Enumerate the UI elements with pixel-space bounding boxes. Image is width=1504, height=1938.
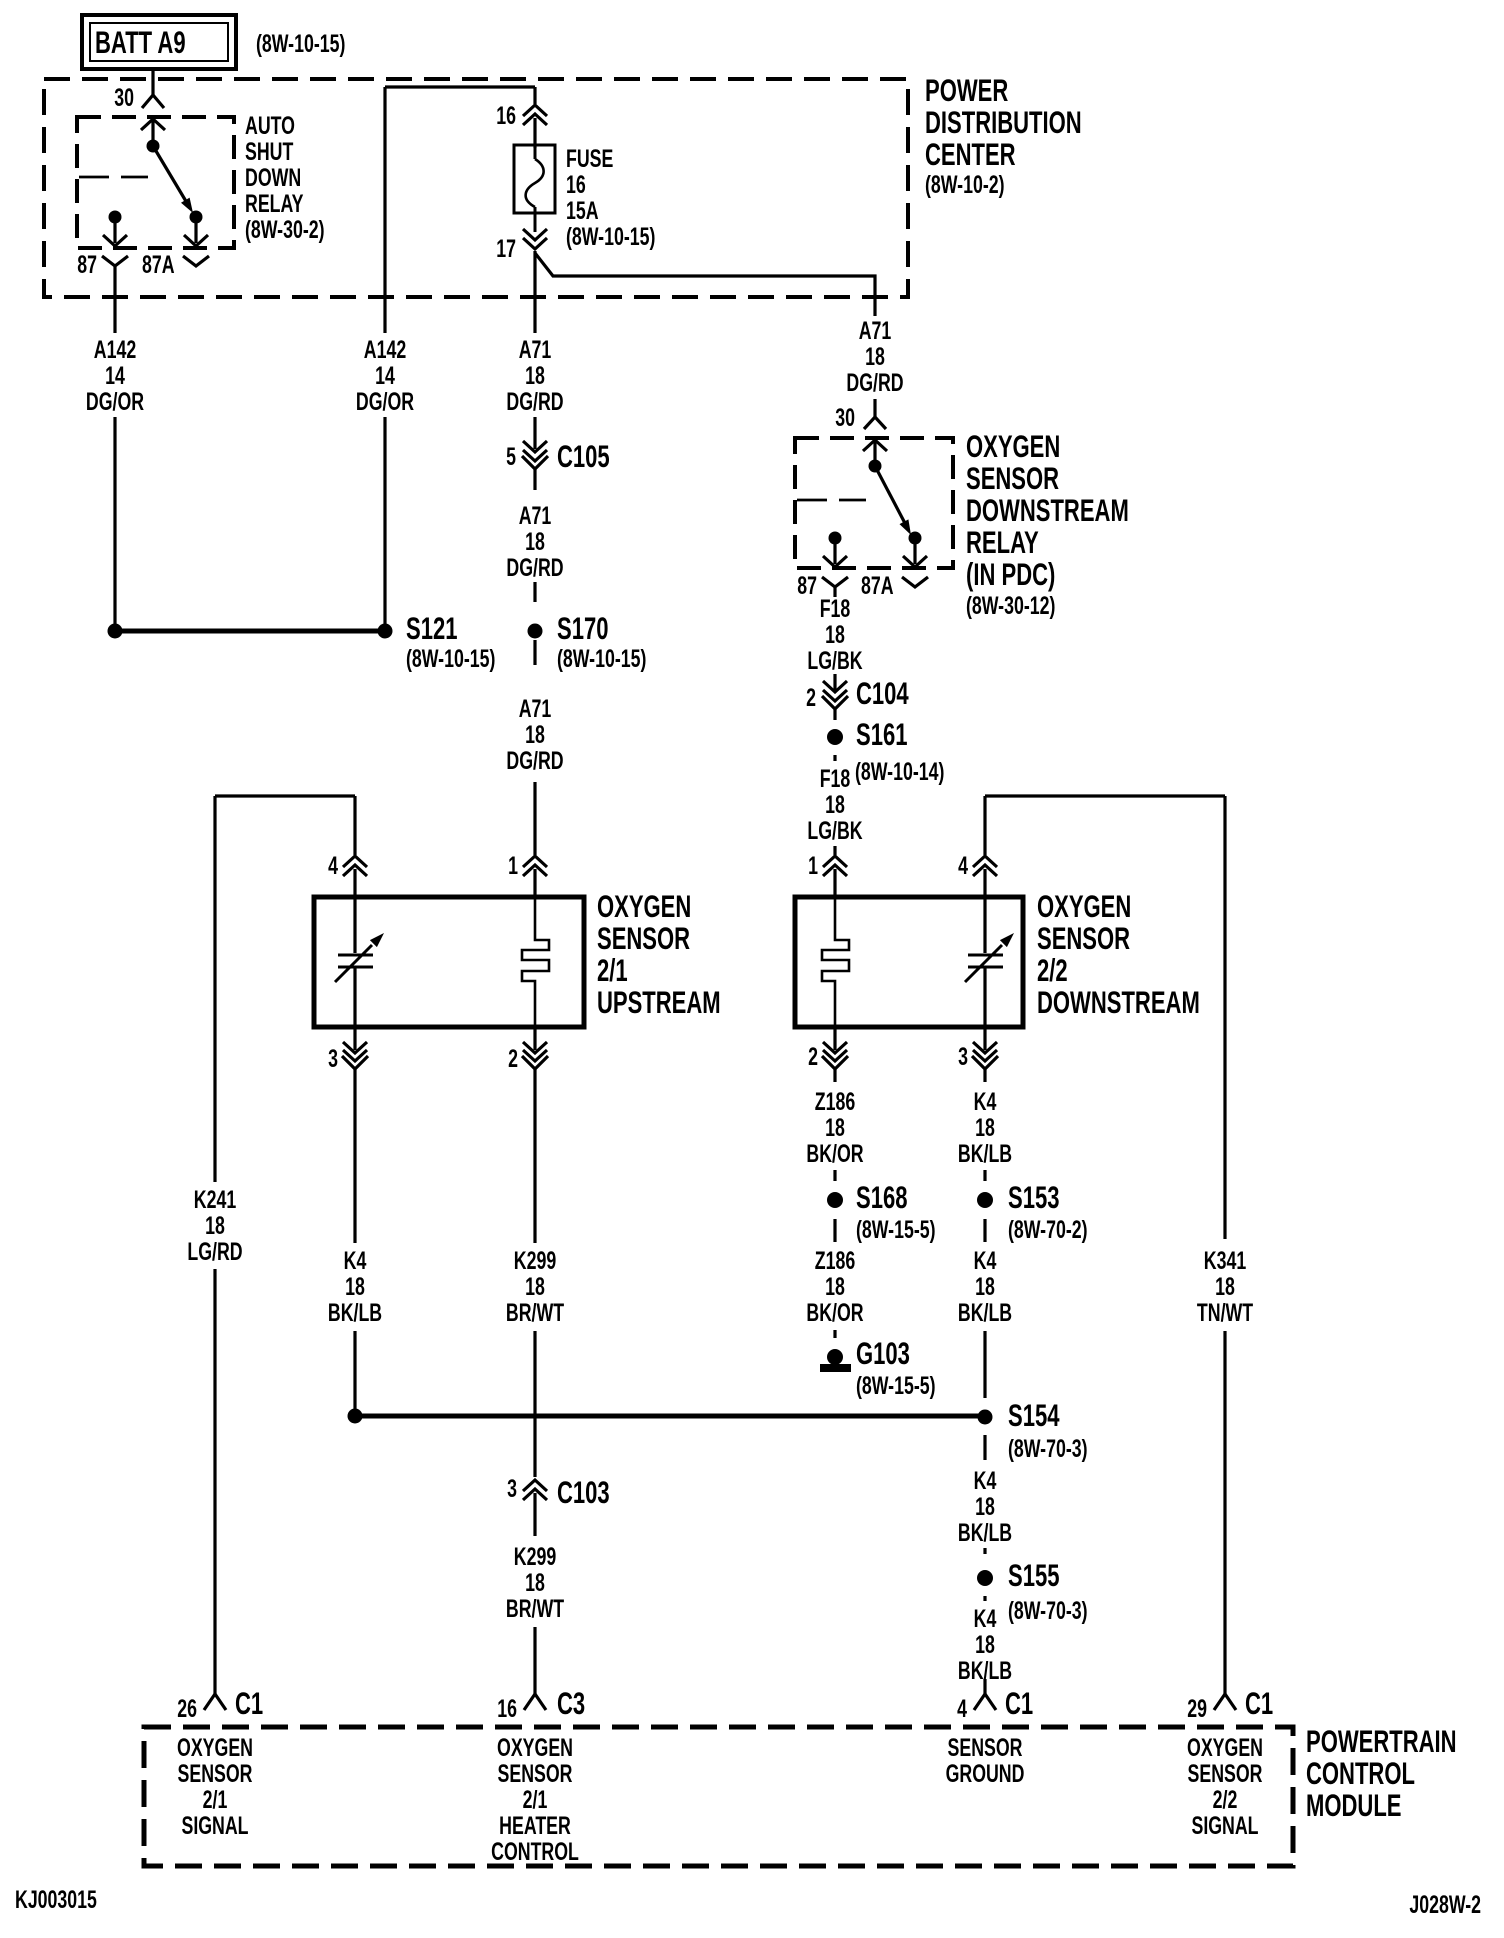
- svg-text:RELAY: RELAY: [966, 524, 1039, 560]
- svg-text:A71: A71: [519, 335, 552, 364]
- svg-text:(8W-10-15): (8W-10-15): [557, 644, 646, 673]
- svg-text:2/1: 2/1: [523, 1785, 548, 1814]
- svg-text:18: 18: [1215, 1272, 1235, 1301]
- downstream relay pin 30 male pin: [863, 440, 887, 466]
- svg-text:DOWNSTREAM: DOWNSTREAM: [966, 492, 1129, 528]
- wire A71 between C105 and S170: [506, 501, 563, 602]
- svg-text:87A: 87A: [142, 250, 175, 279]
- PCM pin 29 connector C1: [1187, 1685, 1273, 1723]
- svg-text:FUSE: FUSE: [566, 144, 613, 173]
- wire from feed to fuse pin 16: [533, 87, 536, 104]
- svg-text:3: 3: [507, 1474, 517, 1503]
- svg-text:LG/RD: LG/RD: [187, 1237, 242, 1266]
- svg-text:DG/OR: DG/OR: [86, 387, 144, 416]
- svg-text:C3: C3: [557, 1685, 585, 1721]
- svg-text:(8W-15-5): (8W-15-5): [856, 1371, 936, 1400]
- auto shut down relay box: [77, 117, 234, 248]
- wire F18 from relay pin 87: [807, 587, 862, 690]
- dashed wire below S161: [833, 755, 836, 761]
- svg-text:26: 26: [177, 1694, 197, 1723]
- PCM pin 16 function label: [491, 1733, 579, 1866]
- svg-text:CONTROL: CONTROL: [491, 1837, 579, 1866]
- splice S155: [977, 1557, 1088, 1625]
- svg-text:1: 1: [508, 851, 518, 880]
- wire A71 label below PDC (x=535): [506, 335, 563, 449]
- sensor 2/2 pin 1 connector: [808, 851, 847, 897]
- wire A71 feed label to downstream relay (x=875): [846, 316, 903, 397]
- svg-text:4: 4: [958, 851, 968, 880]
- wire F18 between S161 and sensor 2/2: [807, 764, 862, 855]
- svg-text:18: 18: [825, 790, 845, 819]
- svg-text:(8W-70-3): (8W-70-3): [1008, 1434, 1088, 1463]
- svg-text:SHUT: SHUT: [245, 137, 293, 166]
- svg-text:SENSOR: SENSOR: [948, 1733, 1023, 1762]
- svg-text:OXYGEN: OXYGEN: [1187, 1733, 1263, 1762]
- ASD pin 87A female connector below box: [142, 250, 209, 279]
- svg-text:15A: 15A: [566, 196, 599, 225]
- svg-text:18: 18: [525, 1272, 545, 1301]
- svg-text:BR/WT: BR/WT: [506, 1594, 564, 1623]
- wire Z186 from S168 to G103: [806, 1219, 863, 1338]
- svg-text:CONTROL: CONTROL: [1306, 1755, 1415, 1791]
- svg-text:A142: A142: [364, 335, 406, 364]
- svg-text:K4: K4: [974, 1087, 997, 1116]
- svg-text:DISTRIBUTION: DISTRIBUTION: [925, 104, 1082, 140]
- fuse 16 15A: [514, 118, 555, 232]
- svg-text:POWER: POWER: [925, 72, 1009, 108]
- svg-text:(8W-10-15): (8W-10-15): [406, 644, 495, 673]
- svg-text:K299: K299: [514, 1542, 556, 1571]
- svg-text:GROUND: GROUND: [946, 1759, 1025, 1788]
- wire A71 stem above relay pin 30: [873, 399, 876, 417]
- svg-text:S168: S168: [856, 1179, 907, 1215]
- svg-text:BK/OR: BK/OR: [806, 1298, 863, 1327]
- svg-text:UPSTREAM: UPSTREAM: [597, 984, 721, 1020]
- Power Distribution Center box: [44, 79, 908, 297]
- svg-text:18: 18: [975, 1272, 995, 1301]
- sensor 2/1 pin 4 connector: [328, 851, 367, 897]
- ASD pin 87 stem and chevron: [103, 223, 127, 246]
- svg-text:(8W-30-2): (8W-30-2): [245, 215, 325, 244]
- svg-text:DG/RD: DG/RD: [506, 746, 563, 775]
- svg-text:C105: C105: [557, 438, 610, 474]
- ASD relay contact 87A dot: [190, 211, 203, 224]
- svg-text:18: 18: [525, 1568, 545, 1597]
- svg-text:2/2: 2/2: [1213, 1785, 1238, 1814]
- svg-text:S153: S153: [1008, 1179, 1059, 1215]
- svg-text:4: 4: [957, 1694, 967, 1723]
- splice S161: [827, 716, 944, 786]
- svg-text:(IN PDC): (IN PDC): [966, 556, 1055, 592]
- svg-text:BK/LB: BK/LB: [958, 1298, 1012, 1327]
- svg-text:K299: K299: [514, 1246, 556, 1275]
- sensor 2/2 heater element: [822, 897, 849, 1027]
- svg-text:K4: K4: [974, 1604, 997, 1633]
- wire K4 from S154 to S155: [958, 1435, 1012, 1554]
- reference label (8W-10-15) for BATT A9: [256, 29, 345, 58]
- svg-text:14: 14: [105, 361, 125, 390]
- svg-text:DG/RD: DG/RD: [506, 553, 563, 582]
- svg-text:5: 5: [506, 442, 516, 471]
- svg-text:RELAY: RELAY: [245, 189, 304, 218]
- svg-text:AUTO: AUTO: [245, 111, 295, 140]
- svg-text:DG/OR: DG/OR: [356, 387, 414, 416]
- svg-text:18: 18: [525, 527, 545, 556]
- female connector pin 30 of downstream relay: [835, 403, 886, 432]
- svg-text:18: 18: [525, 361, 545, 390]
- wire K4 from S155 to PCM pin 4: [958, 1596, 1012, 1694]
- svg-text:OXYGEN: OXYGEN: [177, 1733, 253, 1762]
- wire K4 from sensor 2/1 pin 3 to ground junction: [328, 1082, 382, 1409]
- ASD relay switch arm with arrow: [153, 146, 193, 213]
- sensor 2/1 name label: [597, 888, 721, 1020]
- svg-text:(8W-10-15): (8W-10-15): [566, 222, 655, 251]
- svg-text:16: 16: [566, 170, 586, 199]
- sensor 2/2 pin 2 connector: [808, 1027, 848, 1082]
- ASD relay pivot contact dot: [147, 140, 160, 153]
- svg-text:K241: K241: [194, 1185, 236, 1214]
- wire K241 from PCM pin 26 up and over to sensor 2/1 pin 4: [187, 796, 355, 1694]
- PCM pin 26 connector C1: [177, 1685, 263, 1723]
- downstream relay contact 87A dot: [909, 532, 922, 545]
- PCM pin 29 function label: [1187, 1733, 1263, 1840]
- wire K4 from S153 to S154: [958, 1219, 1012, 1398]
- svg-text:18: 18: [525, 720, 545, 749]
- svg-text:18: 18: [345, 1272, 365, 1301]
- svg-text:POWERTRAIN: POWERTRAIN: [1306, 1723, 1457, 1759]
- PDC name label: [925, 72, 1082, 199]
- svg-text:18: 18: [975, 1492, 995, 1521]
- svg-text:SIGNAL: SIGNAL: [1191, 1811, 1258, 1840]
- svg-text:DOWN: DOWN: [245, 163, 301, 192]
- wire A71 into sensor 2/1 pin 1: [508, 851, 547, 897]
- downstream relay pin 87 stem and chevron: [823, 544, 847, 567]
- PCM pin 4 connector C1: [957, 1685, 1033, 1723]
- svg-text:2/1: 2/1: [203, 1785, 228, 1814]
- svg-text:2/2: 2/2: [1037, 952, 1068, 988]
- svg-text:C1: C1: [235, 1685, 263, 1721]
- connector C103 pin 3: [507, 1474, 610, 1536]
- svg-text:29: 29: [1187, 1694, 1207, 1723]
- svg-text:OXYGEN: OXYGEN: [497, 1733, 573, 1762]
- svg-text:SENSOR: SENSOR: [498, 1759, 573, 1788]
- sensor 2/1 pin 2 connector: [508, 1027, 548, 1082]
- svg-text:C103: C103: [557, 1474, 610, 1510]
- svg-text:2: 2: [808, 1042, 818, 1071]
- svg-text:A71: A71: [519, 694, 552, 723]
- svg-text:Z186: Z186: [815, 1246, 855, 1275]
- svg-text:30: 30: [835, 403, 855, 432]
- svg-text:DG/RD: DG/RD: [506, 387, 563, 416]
- svg-text:(8W-70-2): (8W-70-2): [1008, 1215, 1088, 1244]
- svg-text:BK/LB: BK/LB: [958, 1139, 1012, 1168]
- splice S154: [978, 1397, 1088, 1463]
- svg-text:2/1: 2/1: [597, 952, 628, 988]
- splice S168: [827, 1179, 936, 1244]
- wire Z186 from sensor 2/2 pin 2 to S168: [806, 1087, 863, 1181]
- svg-text:C1: C1: [1245, 1685, 1273, 1721]
- svg-text:18: 18: [825, 620, 845, 649]
- svg-text:LG/BK: LG/BK: [807, 816, 862, 845]
- ground G103: [820, 1335, 936, 1400]
- svg-text:18: 18: [205, 1211, 225, 1240]
- svg-text:16: 16: [497, 1694, 517, 1723]
- oxygen sensor 2/1 box: [314, 897, 584, 1027]
- svg-text:SENSOR: SENSOR: [1188, 1759, 1263, 1788]
- sensor 2/2 pin 3 connector: [958, 1027, 998, 1082]
- wire K299 from C103 to PCM pin 16: [506, 1542, 564, 1694]
- downstream relay contact 87 dot: [829, 532, 842, 545]
- svg-text:18: 18: [825, 1272, 845, 1301]
- svg-text:C1: C1: [1005, 1685, 1033, 1721]
- svg-text:16: 16: [496, 101, 516, 130]
- svg-text:1: 1: [808, 851, 818, 880]
- svg-text:(8W-10-14): (8W-10-14): [855, 757, 944, 786]
- svg-text:30: 30: [114, 83, 134, 112]
- svg-text:3: 3: [328, 1044, 338, 1073]
- svg-text:18: 18: [865, 342, 885, 371]
- fuse value label: [566, 144, 655, 251]
- downstream relay pivot contact dot: [869, 460, 882, 473]
- svg-text:DOWNSTREAM: DOWNSTREAM: [1037, 984, 1200, 1020]
- svg-text:(8W-70-3): (8W-70-3): [1008, 1596, 1088, 1625]
- feed wire inside PDC to fuse: [385, 85, 535, 88]
- splice S121: [108, 610, 496, 673]
- svg-text:2: 2: [508, 1044, 518, 1073]
- sensor 2/1 pin 3 connector: [328, 1027, 368, 1082]
- ground junction dot at sensor 2/1 ground wire: [348, 1409, 363, 1424]
- wire K4 from sensor 2/2 pin 3 to S153: [958, 1087, 1012, 1181]
- downstream relay name label: [966, 428, 1129, 620]
- svg-text:TN/WT: TN/WT: [1197, 1298, 1253, 1327]
- svg-text:BR/WT: BR/WT: [506, 1298, 564, 1327]
- svg-text:DG/RD: DG/RD: [846, 368, 903, 397]
- svg-text:BK/LB: BK/LB: [328, 1298, 382, 1327]
- drawing number KJ003015: [15, 1885, 97, 1914]
- sensor 2/2 sensing element (variable capacitor with arrow): [965, 897, 1014, 1027]
- svg-text:17: 17: [496, 234, 516, 263]
- ASD pin 87 female connector below box: [77, 250, 128, 279]
- svg-text:SENSOR: SENSOR: [966, 460, 1059, 496]
- svg-text:K4: K4: [974, 1246, 997, 1275]
- power source box BATT A9: [82, 15, 236, 69]
- drawing number J028W-2: [1409, 1890, 1481, 1919]
- sensor ground bus line: [355, 1414, 985, 1419]
- ASD pin 87A stem and chevron: [184, 223, 208, 246]
- connector C104 pin 2: [806, 675, 909, 720]
- svg-text:SENSOR: SENSOR: [1037, 920, 1130, 956]
- fuse pin 16 connector: [496, 101, 547, 148]
- svg-text:K341: K341: [1204, 1246, 1246, 1275]
- svg-text:3: 3: [958, 1042, 968, 1071]
- svg-text:K4: K4: [344, 1246, 367, 1275]
- downstream relay pin 87 female connector: [797, 571, 848, 600]
- wire A71 below S170: [506, 640, 563, 855]
- svg-text:A71: A71: [859, 316, 892, 345]
- connector C105 pin 5: [506, 438, 610, 490]
- downstream relay switch arm with arrow: [875, 466, 911, 535]
- fuse pin 17 connector: [496, 229, 547, 263]
- svg-text:S155: S155: [1008, 1557, 1059, 1593]
- svg-text:(8W-10-15): (8W-10-15): [256, 29, 345, 58]
- svg-text:G103: G103: [856, 1335, 910, 1371]
- wire A142 from PDC fuse feed down to S121: [356, 87, 414, 631]
- downstream relay pin 87A female connector: [861, 571, 928, 600]
- PCM pin 4 function label: [946, 1733, 1025, 1788]
- ASD relay name label: [245, 111, 325, 244]
- svg-text:A142: A142: [94, 335, 136, 364]
- oxygen sensor 2/2 box: [795, 897, 1023, 1027]
- svg-text:4: 4: [328, 851, 338, 880]
- svg-text:MODULE: MODULE: [1306, 1787, 1401, 1823]
- svg-text:(8W-15-5): (8W-15-5): [856, 1215, 936, 1244]
- wire A142 from ASD pin 87 down to S121: [86, 266, 144, 631]
- svg-text:2: 2: [806, 683, 816, 712]
- svg-text:87A: 87A: [861, 571, 894, 600]
- svg-text:C104: C104: [856, 675, 909, 711]
- svg-text:HEATER: HEATER: [499, 1811, 571, 1840]
- svg-text:OXYGEN: OXYGEN: [1037, 888, 1131, 924]
- svg-text:BATT A9: BATT A9: [95, 24, 186, 60]
- downstream relay pin 87A stem and chevron: [903, 544, 927, 567]
- svg-text:87: 87: [797, 571, 817, 600]
- sensor 2/1 sensing element (variable capacitor with arrow): [335, 897, 384, 1027]
- sensor 2/1 heater element: [522, 897, 549, 1027]
- ASD relay pin 30 male pin: [141, 119, 165, 146]
- svg-text:SENSOR: SENSOR: [178, 1759, 253, 1788]
- svg-text:BK/LB: BK/LB: [958, 1518, 1012, 1547]
- svg-text:CENTER: CENTER: [925, 136, 1016, 172]
- svg-text:K4: K4: [974, 1466, 997, 1495]
- svg-text:A71: A71: [519, 501, 552, 530]
- sensor 2/2 name label: [1037, 888, 1200, 1020]
- svg-text:(8W-10-2): (8W-10-2): [925, 170, 1005, 199]
- svg-text:SIGNAL: SIGNAL: [181, 1811, 248, 1840]
- oxygen sensor downstream relay box: [795, 438, 953, 568]
- svg-text:18: 18: [825, 1113, 845, 1142]
- svg-text:BK/OR: BK/OR: [806, 1139, 863, 1168]
- svg-text:J028W-2: J028W-2: [1409, 1890, 1481, 1919]
- svg-text:KJ003015: KJ003015: [15, 1885, 97, 1914]
- branch wire from pin 17 to downstream relay feed: [535, 253, 875, 316]
- svg-text:Z186: Z186: [815, 1087, 855, 1116]
- wire A71 from fuse pin 17 down: [533, 251, 536, 333]
- svg-text:SENSOR: SENSOR: [597, 920, 690, 956]
- svg-text:18: 18: [975, 1630, 995, 1659]
- splice S153: [977, 1179, 1088, 1244]
- female connector pin 30 of ASD relay: [114, 83, 164, 112]
- svg-text:OXYGEN: OXYGEN: [597, 888, 691, 924]
- svg-text:87: 87: [77, 250, 97, 279]
- wire K299 from sensor 2/1 pin 2 down to C103: [506, 1082, 564, 1477]
- PCM name label: [1306, 1723, 1457, 1823]
- svg-text:OXYGEN: OXYGEN: [966, 428, 1060, 464]
- svg-text:S154: S154: [1008, 1397, 1059, 1433]
- PCM pin 26 function label: [177, 1733, 253, 1840]
- splice S170: [528, 610, 647, 673]
- svg-text:S161: S161: [856, 716, 907, 752]
- svg-text:F18: F18: [820, 764, 851, 793]
- svg-text:S121: S121: [406, 610, 457, 646]
- svg-text:18: 18: [975, 1113, 995, 1142]
- ASD relay contact 87 dot: [109, 211, 122, 224]
- svg-text:S170: S170: [557, 610, 608, 646]
- svg-text:14: 14: [375, 361, 395, 390]
- sensor 2/2 pin 4 connector: [958, 851, 997, 897]
- svg-text:(8W-30-12): (8W-30-12): [966, 591, 1055, 620]
- svg-text:LG/BK: LG/BK: [807, 646, 862, 675]
- wire from BATT A9 to ASD relay pin 30: [151, 69, 154, 95]
- wire from PCM pin 29 up and over to sensor 2/2 pin 4: [985, 796, 1253, 1694]
- powertrain control module box: [144, 1727, 1293, 1866]
- svg-text:F18: F18: [820, 594, 851, 623]
- PCM pin 16 connector C3: [497, 1685, 585, 1723]
